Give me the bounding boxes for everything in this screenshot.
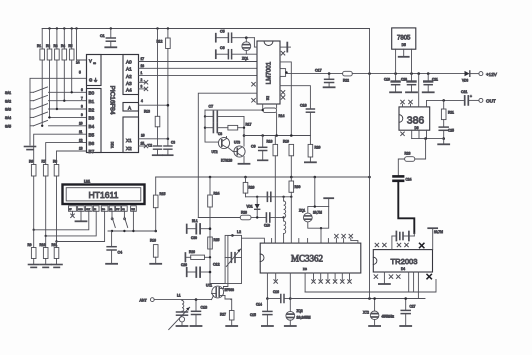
svg-text:R18: R18: [267, 140, 273, 144]
capacitor C24 bold: [394, 176, 404, 180]
svg-text:9: 9: [81, 113, 83, 117]
wire: LM7001 pin to PLL data loop: [198, 93, 257, 217]
ground: 7805 tab: [403, 49, 405, 56]
resistor R4: [63, 29, 65, 50]
svg-text:A4: A4: [126, 88, 132, 93]
svg-text:PW: PW: [116, 209, 119, 211]
svg-text:C13: C13: [201, 306, 208, 310]
svg-text:15: 15: [141, 142, 145, 146]
diode VD1 varicap: [256, 197, 258, 204]
wire: MCLR pin4: [139, 104, 168, 106]
capacitor C19b on line: [267, 192, 270, 201]
svg-text:LM7001: LM7001: [266, 61, 273, 84]
capacitor C28 variable antenna trim: [181, 310, 183, 313]
svg-text:PIC16F84: PIC16F84: [109, 86, 116, 115]
node: switch row junctions: [41, 91, 73, 127]
svg-text:D5: D5: [402, 43, 406, 47]
regulator 7805: [392, 28, 416, 49]
ground: TR2003 pin2: [383, 272, 385, 283]
switch: HT1611 S1 jumper: [111, 211, 113, 217]
crystal ZQ1 reference quartz: [245, 36, 248, 39]
svg-text:C24: C24: [406, 178, 412, 182]
wire: to HT1611 pin3: [34, 211, 89, 230]
filter BL1: [196, 224, 200, 234]
resistor R9: [33, 230, 35, 248]
switch SA4: [30, 116, 34, 118]
resistor R21: [443, 100, 445, 109]
terminal and capacitor C26: [186, 268, 188, 277]
wire: vertical junction x244: [243, 116, 245, 146]
svg-text:KT3128: KT3128: [221, 159, 232, 163]
svg-text:R24: R24: [214, 192, 220, 196]
resistor R8: [54, 165, 59, 177]
svg-text:L2: L2: [237, 230, 241, 234]
capacitor C1: [110, 29, 112, 38]
capacitor C7: [205, 115, 213, 117]
wire: 386 Vcc: [418, 74, 420, 107]
svg-text:R12: R12: [157, 40, 163, 44]
svg-text:R15: R15: [160, 192, 166, 196]
resistor R12 body on MCLR pull-up: [167, 29, 169, 39]
wire: to HT1611 pin4: [46, 211, 96, 236]
ground: HT1611 pin2: [80, 211, 82, 220]
wire: MC3362 pin to quad line: [266, 273, 268, 299]
svg-text:X2: X2: [126, 146, 132, 151]
svg-text:C19: C19: [384, 78, 390, 82]
wire: to HT1611 pin5: [57, 211, 105, 241]
pin X marks below MC3362: [274, 280, 278, 284]
resistor R16: [154, 230, 157, 233]
capacitor C13: [195, 298, 198, 301]
terminal: +12V: [479, 72, 483, 76]
svg-text:UT2: UT2: [212, 150, 218, 154]
svg-text:C9: C9: [251, 145, 256, 149]
svg-text:CLK: CLK: [86, 209, 91, 211]
svg-text:DO: DO: [102, 209, 105, 211]
svg-text:OUT: OUT: [486, 99, 496, 104]
capacitor C6: [215, 50, 217, 58]
svg-text:C27: C27: [410, 305, 416, 309]
wire: top pin corner x351: [351, 239, 358, 244]
svg-text:R2: R2: [46, 44, 50, 48]
resonator XT 455kHz: [374, 299, 376, 312]
svg-text:C11: C11: [461, 90, 467, 94]
svg-text:C21: C21: [432, 78, 438, 82]
pin X marks above MC3362: [335, 234, 353, 238]
svg-text:SA5: SA5: [5, 125, 11, 129]
wire: A0 pin17 to LM7001: [139, 61, 258, 63]
pin: LM7001 Vcc square pad: [280, 69, 286, 77]
svg-text:X1: X1: [126, 138, 132, 143]
wire: 386 bottom pins to feedback line: [411, 130, 413, 138]
ground: switch rail ground: [25, 147, 36, 150]
svg-text:B3: B3: [89, 116, 95, 121]
svg-text:A0: A0: [126, 59, 132, 64]
transistor Q3 UT3: [234, 146, 245, 157]
wire: IF line y135.5: [244, 135, 310, 137]
pin boxes HT1611: [69, 206, 77, 212]
wire: option select line y231: [108, 230, 156, 232]
svg-text:13: 13: [79, 147, 83, 151]
resistor R25: [208, 237, 213, 249]
svg-text:G: G: [89, 78, 92, 83]
resistor R20: [309, 136, 311, 145]
svg-text:A1: A1: [126, 66, 132, 71]
capacitor C15: [266, 297, 269, 300]
wire: bold coupling path: [398, 181, 414, 233]
capacitor C25: [439, 127, 448, 130]
switch SA5: [30, 125, 34, 127]
svg-text:R22: R22: [343, 79, 349, 83]
svg-text:8: 8: [81, 105, 83, 109]
svg-text:5: 5: [79, 71, 81, 75]
svg-text:C15: C15: [250, 313, 256, 317]
capacitor C19: [395, 74, 397, 81]
resistor R13: [157, 29, 159, 117]
inductor 10.7M IF: [432, 229, 434, 250]
wire: A2 pin1 to LM7001: [139, 75, 258, 77]
svg-text:LM1: LM1: [84, 180, 90, 184]
capacitor above TR2003: [391, 236, 393, 250]
svg-text:R21: R21: [448, 111, 454, 115]
svg-text:D3: D3: [303, 267, 307, 271]
wire: LM7001 pin to C18: [280, 86, 310, 109]
wire: pin11 B5: [34, 134, 87, 164]
pin X mark below 386: [401, 132, 405, 136]
svg-text:B4: B4: [89, 124, 95, 129]
resistor R2: [49, 29, 51, 50]
svg-text:ZQ1: ZQ1: [242, 57, 248, 61]
svg-text:D2: D2: [266, 96, 270, 100]
svg-text:C30: C30: [191, 236, 197, 240]
resistor R26: [184, 253, 186, 262]
svg-text:R1: R1: [37, 44, 41, 48]
svg-text:Vdd: Vdd: [131, 209, 135, 211]
svg-text:ZQ1: ZQ1: [299, 209, 305, 213]
svg-text:R27: R27: [220, 313, 226, 317]
svg-text:⏚: ⏚: [94, 78, 98, 83]
capacitor C12 variable: [225, 257, 231, 259]
capacitor C11 output: [465, 96, 469, 105]
svg-text:R4: R4: [61, 44, 65, 48]
capacitor C4: [111, 231, 113, 246]
svg-text:HT1611: HT1611: [89, 190, 119, 200]
resistor R19: [289, 144, 294, 155]
capacitor C21: [427, 74, 429, 81]
svg-text:C25: C25: [448, 129, 454, 133]
svg-text:V: V: [89, 59, 92, 64]
svg-text:R19: R19: [283, 140, 289, 144]
svg-text:C18: C18: [300, 104, 307, 108]
transistor Q2 UT2: [218, 137, 229, 148]
svg-text:ANT: ANT: [140, 299, 148, 303]
op-amp U4: 386 audio amp: [399, 107, 430, 130]
svg-text:A2: A2: [126, 74, 132, 79]
ground: R11: [52, 265, 63, 268]
svg-text:SA1: SA1: [5, 91, 11, 95]
svg-text:VD1: VD1: [247, 205, 253, 209]
resistor R29: [245, 177, 247, 182]
ground: R10: [41, 265, 52, 268]
wire: line y196.8: [246, 196, 292, 198]
svg-text:386: 386: [407, 115, 425, 127]
resistor R7: [43, 165, 48, 177]
svg-text:10,245M: 10,245M: [297, 316, 311, 320]
svg-text:17: 17: [141, 57, 145, 61]
resistor R11: [56, 242, 58, 248]
svg-text:C17: C17: [315, 69, 322, 73]
resistor R6: [31, 165, 36, 177]
svg-text:B1: B1: [89, 99, 95, 104]
svg-text:SA4: SA4: [5, 116, 11, 120]
svg-text:C4: C4: [118, 251, 123, 255]
svg-text:MC3362: MC3362: [291, 254, 323, 264]
svg-text:R8: R8: [53, 160, 57, 164]
wire: audio loop line y292: [304, 273, 306, 292]
capacitor C18: [306, 109, 314, 112]
svg-text:R5: R5: [68, 44, 72, 48]
svg-text:C7: C7: [209, 105, 214, 109]
capacitor C17: [328, 74, 330, 79]
capacitor C27: [405, 299, 407, 310]
wire: X1 pin16: [139, 138, 168, 140]
resistor R30: [290, 177, 292, 181]
node: LCD data junctions: [33, 229, 58, 243]
svg-text:10,7M: 10,7M: [313, 211, 322, 215]
svg-text:C26: C26: [181, 263, 187, 267]
svg-text:VD3: VD3: [462, 79, 468, 83]
wire: quad line right: [290, 298, 425, 300]
svg-text:+: +: [470, 95, 472, 99]
switch: HT1611 S2 jumper: [123, 211, 125, 217]
svg-text:11: 11: [79, 130, 83, 134]
svg-text:UT1: UT1: [206, 284, 212, 288]
op-amp U5: TR2003 outline: [373, 250, 432, 272]
wire: LM7001 pin to R19 column: [280, 62, 291, 136]
wire: A1 pin18 to LM7001: [139, 67, 258, 69]
svg-text:3: 3: [141, 84, 143, 88]
capacitor C2: [154, 146, 162, 149]
svg-text:ZQ2: ZQ2: [297, 309, 303, 313]
op-amp U2: LM7001 outline: [257, 41, 280, 104]
svg-text:R23: R23: [405, 152, 411, 156]
diode VD3 supply: [465, 71, 470, 76]
resistor R3: [56, 29, 58, 50]
svg-text:R26: R26: [189, 250, 195, 254]
svg-text:R17: R17: [246, 123, 252, 127]
svg-text:C5: C5: [220, 30, 225, 34]
crystal ZQ2: [289, 297, 292, 300]
svg-text:R20: R20: [315, 146, 321, 150]
svg-text:R25: R25: [214, 238, 220, 242]
capacitor C3: [167, 139, 169, 146]
wire: pin12 B6: [46, 143, 87, 165]
wire: UT1 drain to tank: [224, 235, 233, 286]
svg-text:6: 6: [81, 88, 83, 92]
pin 15 stub with X: [139, 145, 147, 147]
svg-text:18: 18: [141, 64, 145, 68]
svg-text:XT2: XT2: [363, 311, 369, 315]
svg-text:C6: C6: [220, 46, 225, 50]
svg-text:14: 14: [76, 61, 80, 65]
pin X marks above 386: [401, 100, 413, 104]
svg-text:C1: C1: [100, 34, 105, 38]
wire: R14 right down to line: [276, 113, 278, 136]
svg-text:D4: D4: [401, 267, 405, 271]
svg-text:R13: R13: [144, 110, 150, 114]
wire: TR2003 bottom pins: [408, 272, 410, 292]
switch SA1: [30, 91, 34, 93]
svg-text:R30: R30: [295, 185, 301, 189]
wire: R14 left to C7 node: [205, 109, 263, 111]
svg-text:10,7M: 10,7M: [434, 230, 443, 234]
svg-text:R6: R6: [29, 160, 33, 164]
wire: line y217.5 PLL tune: [198, 217, 240, 219]
resistor R18: [274, 136, 276, 145]
tank circuit loop L2: [225, 235, 241, 283]
resistor R10: [45, 236, 47, 248]
svg-text:B7: B7: [89, 149, 95, 154]
transistor Q1 UT1 BF988: [212, 286, 224, 298]
svg-text:L1: L1: [177, 294, 181, 298]
resistor R1: [41, 29, 43, 50]
svg-text:C16: C16: [273, 290, 279, 294]
switch SA2: [30, 100, 34, 102]
svg-text:R10: R10: [40, 243, 46, 247]
op-amp U3: MC3362 outline: [260, 243, 361, 273]
ground: UT3 emitter: [243, 157, 245, 164]
resistor R24: [209, 177, 211, 195]
wire: pin13 B7: [57, 151, 87, 165]
ground: R9: [29, 265, 40, 268]
svg-text:DD1: DD1: [110, 142, 114, 149]
pin X marks above TR2003: [375, 243, 408, 247]
switch SA3: [30, 108, 34, 110]
svg-text:R28: R28: [241, 211, 247, 215]
svg-text:7805: 7805: [397, 36, 411, 42]
svg-text:455kHz: 455kHz: [382, 315, 395, 319]
svg-text:C2: C2: [148, 144, 152, 148]
pin X marks below TR2003: [374, 275, 400, 279]
svg-text:D6: D6: [415, 126, 419, 130]
wire: tank to MC3362 pin: [242, 238, 265, 243]
svg-text:+12V: +12V: [486, 72, 498, 77]
svg-text:4: 4: [141, 99, 143, 103]
wire: C7 feedback line: [205, 110, 219, 142]
svg-text:C14: C14: [256, 303, 262, 307]
svg-text:1: 1: [141, 71, 143, 75]
svg-text:BF988: BF988: [225, 288, 235, 292]
pin X marks LM7001 left: [252, 82, 256, 102]
svg-text:BL1: BL1: [192, 219, 198, 223]
svg-text:R14: R14: [279, 114, 285, 118]
wire: osc top into LM7001: [254, 38, 257, 47]
svg-text:16: 16: [141, 134, 145, 138]
svg-text:C3: C3: [171, 141, 175, 145]
svg-text:C12: C12: [213, 263, 220, 267]
resistor R17: [228, 125, 238, 130]
node: rail junction dots: [48, 27, 169, 29]
capacitor C5: [215, 34, 217, 42]
svg-text:OSC: OSC: [78, 209, 83, 211]
resistor R5: [71, 29, 73, 50]
capacitor C16: [267, 298, 280, 300]
svg-text:C20: C20: [401, 78, 407, 82]
svg-text:R16: R16: [150, 239, 156, 243]
svg-text:12: 12: [79, 138, 83, 142]
terminal: BL1 filter input: [186, 225, 188, 234]
pin stubs MC3362 top: [290, 197, 292, 243]
svg-text:B2: B2: [89, 107, 95, 112]
svg-text:B5: B5: [89, 133, 95, 138]
wire: 5V rail right: [286, 73, 342, 75]
resistor R15: [155, 177, 157, 195]
capacitor C9: [262, 136, 264, 147]
svg-text:C10: C10: [264, 224, 270, 228]
svg-text:2: 2: [141, 78, 143, 82]
op-amp U1: PIC16F84 outline: [87, 55, 139, 153]
svg-text:R3: R3: [53, 44, 57, 48]
svg-text:UT3: UT3: [234, 141, 240, 145]
pin 3 stub with X: [139, 88, 147, 90]
resistor R28: [240, 215, 251, 220]
terminal: OUT: [479, 98, 483, 102]
pin 1 X no-connect: [72, 211, 74, 214]
wire: vertical spine x369.5: [369, 29, 371, 299]
pin X marks LM7001 right: [281, 51, 285, 99]
svg-text:7: 7: [81, 96, 83, 100]
svg-text:10: 10: [79, 122, 83, 126]
node: pin4 junction: [167, 104, 170, 140]
wire: HT1611 Vdd column: [132, 211, 134, 231]
wire: +5V top rail: [42, 28, 369, 30]
resistor R27: [225, 299, 232, 311]
display HT1611: [63, 185, 145, 205]
resistor R14 under LM7001: [262, 104, 264, 110]
svg-text:SA2: SA2: [5, 99, 11, 103]
svg-text:R9: R9: [28, 243, 32, 247]
wire: 386 output to OUT: [427, 100, 464, 107]
capacitor C8: [205, 127, 213, 129]
svg-text:B6: B6: [89, 141, 95, 146]
wire: R24 column to tank: [210, 283, 225, 285]
svg-text:TR2003: TR2003: [390, 257, 417, 266]
resistor Rx vertical mid: [230, 299, 232, 301]
resistor R22 series in rail: [343, 71, 353, 76]
resistor R23: [415, 139, 426, 159]
ground: LM7001 pin top right: [280, 46, 287, 48]
svg-text:R29: R29: [249, 186, 255, 190]
svg-text:A3: A3: [126, 81, 132, 86]
capacitor C20: [411, 74, 413, 81]
svg-text:C8: C8: [218, 132, 222, 136]
wire: GND pin5 to switch rail: [30, 78, 87, 145]
wire: Vcc pin14 feed: [77, 29, 87, 61]
svg-text:R7: R7: [42, 160, 46, 164]
pin 2 stub with X: [139, 81, 147, 83]
svg-text:B0: B0: [89, 91, 95, 96]
capacitor C10: [266, 213, 269, 222]
wire: main bus y177: [156, 176, 370, 178]
svg-text:R11: R11: [52, 243, 58, 247]
inductor L3 oscillator coil: [283, 197, 285, 201]
svg-text:SA3: SA3: [5, 108, 11, 112]
